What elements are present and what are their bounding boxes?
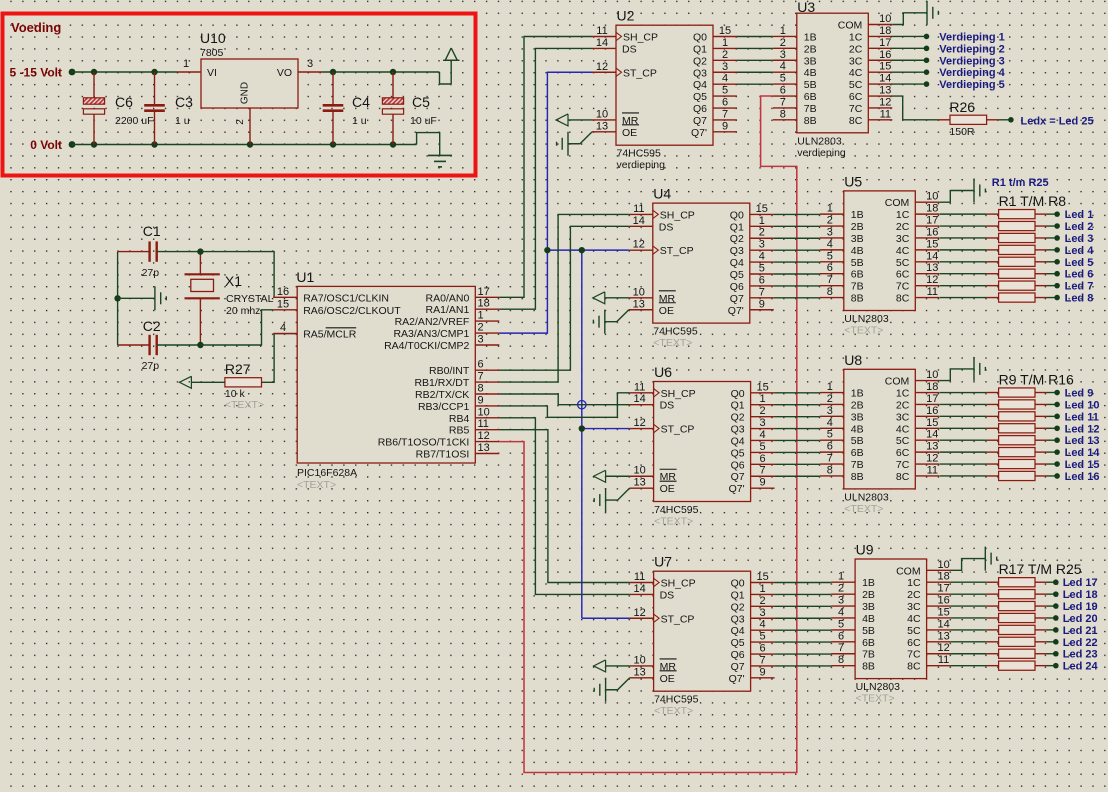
- node Led 19: [1053, 601, 1098, 613]
- node Led 3: [1054, 233, 1093, 245]
- svg-text:8C: 8C: [896, 293, 910, 305]
- svg-text:OE: OE: [660, 483, 675, 495]
- svg-text:10: 10: [879, 13, 891, 25]
- svg-text:C3: C3: [175, 94, 193, 110]
- svg-text:9: 9: [760, 666, 766, 678]
- svg-text:RA2/AN2/VREF: RA2/AN2/VREF: [395, 316, 470, 328]
- label R1 t/m R25: [992, 177, 1049, 189]
- U8 right pin stubs with numbers: [915, 369, 939, 476]
- svg-text:10: 10: [596, 108, 608, 120]
- svg-text:2: 2: [722, 49, 728, 61]
- svg-text:SH_CP: SH_CP: [661, 578, 696, 590]
- svg-text:Led 18: Led 18: [1063, 589, 1098, 601]
- capacitor C1 27p: [118, 223, 201, 279]
- node Verdieping 4: [924, 67, 1006, 79]
- svg-text:Q3: Q3: [731, 424, 745, 436]
- svg-text:4: 4: [759, 251, 765, 263]
- svg-text:12: 12: [633, 607, 645, 619]
- svg-text:4: 4: [838, 606, 844, 618]
- svg-text:7805: 7805: [200, 47, 224, 59]
- svg-text:ST_CP: ST_CP: [660, 245, 694, 257]
- svg-text:7C: 7C: [896, 281, 910, 293]
- svg-text:RB6/T1OSO/T1CKI: RB6/T1OSO/T1CKI: [378, 437, 470, 449]
- wire 0V rail: [72, 144, 417, 146]
- resistor R27 10k: [225, 361, 264, 411]
- svg-text:14: 14: [926, 250, 938, 262]
- svg-text:2: 2: [478, 322, 484, 334]
- wire to rotated ground: [118, 297, 155, 299]
- svg-text:15: 15: [756, 381, 768, 393]
- svg-text:ULN2803: ULN2803: [844, 313, 889, 325]
- U10 pin 2 GND stub: [235, 108, 250, 145]
- svg-text:4C: 4C: [907, 613, 921, 625]
- node Verdieping 1: [924, 31, 1005, 43]
- wire arrow to R27: [191, 381, 225, 383]
- svg-text:12: 12: [937, 642, 949, 654]
- svg-text:13: 13: [926, 441, 938, 453]
- wire C2 row to U1 pin15: [200, 310, 273, 345]
- wire R26 to Ledx node: [999, 119, 1011, 121]
- svg-text:3B: 3B: [851, 411, 864, 423]
- svg-text:7B: 7B: [804, 103, 817, 115]
- microcontroller U1 PIC16F628A: [296, 269, 475, 491]
- svg-text:10: 10: [926, 191, 938, 203]
- svg-text:Led 11: Led 11: [1065, 411, 1099, 423]
- junction left rail to ground: [114, 295, 120, 301]
- svg-text:3: 3: [478, 334, 484, 346]
- svg-text:SH_CP: SH_CP: [660, 209, 695, 221]
- svg-text:R26: R26: [949, 99, 975, 115]
- svg-text:VI: VI: [207, 67, 217, 79]
- node Verdieping 2: [924, 43, 1005, 55]
- arrow terminal at R27: [179, 376, 191, 388]
- svg-text:2200 uF: 2200 uF: [115, 115, 154, 127]
- label Voeding: [11, 20, 61, 35]
- svg-text:3: 3: [827, 226, 833, 238]
- svg-text:4C: 4C: [896, 423, 910, 435]
- wire C1 row to U1 pin16: [200, 252, 274, 298]
- svg-text:Ledx = Led 25: Ledx = Led 25: [1021, 115, 1094, 127]
- crystal X1 20mhz: [185, 252, 274, 345]
- svg-text:Led 9: Led 9: [1065, 388, 1094, 400]
- svg-text:Verdieping 3: Verdieping 3: [939, 55, 1004, 67]
- svg-text:U7: U7: [654, 554, 672, 570]
- power arrow terminal: [443, 48, 460, 84]
- svg-text:2: 2: [838, 583, 844, 595]
- driver U9 ULN2803: [855, 542, 927, 705]
- U10 pin 1 stub: [177, 58, 201, 72]
- svg-text:3B: 3B: [862, 601, 875, 613]
- capacitor C2 27p: [118, 318, 201, 372]
- svg-text:Q5: Q5: [693, 91, 707, 103]
- svg-text:6C: 6C: [896, 447, 910, 459]
- svg-text:8B: 8B: [851, 471, 864, 483]
- svg-text:1: 1: [827, 203, 833, 215]
- wire RA1 to U2 DS: [499, 48, 592, 309]
- svg-text:9: 9: [760, 477, 766, 489]
- svg-text:1: 1: [780, 25, 786, 37]
- svg-text:6C: 6C: [907, 637, 921, 649]
- U8 left pin stubs with numbers: [820, 381, 844, 476]
- svg-text:U8: U8: [844, 352, 862, 368]
- svg-text:6: 6: [760, 453, 766, 465]
- resistor R13: [940, 436, 1058, 445]
- svg-text:Led 2: Led 2: [1065, 221, 1094, 233]
- svg-text:18: 18: [879, 25, 891, 37]
- svg-text:15: 15: [926, 238, 938, 250]
- node Verdieping 3: [924, 55, 1005, 67]
- wire RB6 red net to U3 6B: [499, 96, 797, 772]
- svg-text:Led 14: Led 14: [1065, 447, 1101, 459]
- svg-text:15: 15: [277, 298, 289, 310]
- svg-text:3: 3: [838, 595, 844, 607]
- svg-text:5B: 5B: [804, 79, 817, 91]
- svg-text:OE: OE: [622, 127, 637, 139]
- svg-text:6B: 6B: [851, 269, 864, 281]
- svg-text:14: 14: [633, 215, 645, 227]
- svg-text:11: 11: [880, 108, 891, 120]
- node 0 Volt terminal: [30, 138, 75, 152]
- svg-text:Q0: Q0: [731, 578, 745, 590]
- svg-text:U4: U4: [653, 186, 671, 202]
- node Led 7: [1054, 281, 1093, 293]
- svg-text:2: 2: [827, 215, 833, 227]
- svg-text:7: 7: [780, 96, 786, 108]
- wires U7 Q0-Q7 to U9 1B-8B: [775, 583, 832, 666]
- svg-text:11: 11: [596, 25, 607, 37]
- svg-text:U10: U10: [200, 30, 226, 46]
- svg-text:Led 21: Led 21: [1063, 625, 1098, 637]
- svg-text:7: 7: [827, 274, 833, 286]
- node Led 20: [1053, 613, 1098, 625]
- junction on 0V rail at C3: [151, 141, 157, 147]
- svg-text:16: 16: [926, 226, 938, 238]
- svg-text:17: 17: [926, 393, 938, 405]
- svg-text:6: 6: [838, 630, 844, 642]
- node Ledx = Led25: [1008, 115, 1093, 127]
- resistor group label R1 T/M R8: [999, 193, 1067, 209]
- U2 left pin stubs with numbers: [592, 25, 616, 132]
- svg-text:15: 15: [756, 571, 768, 583]
- svg-text:Q6: Q6: [693, 103, 707, 115]
- svg-text:Led 3: Led 3: [1065, 233, 1094, 245]
- resistor R8: [940, 293, 1058, 302]
- svg-text:10: 10: [937, 559, 949, 571]
- resistor R14: [940, 448, 1058, 457]
- node Led 10: [1054, 399, 1099, 411]
- node Led 17: [1053, 577, 1098, 589]
- node Led 12: [1054, 423, 1099, 435]
- svg-text:7: 7: [478, 371, 484, 383]
- svg-text:7: 7: [760, 654, 766, 666]
- svg-text:3B: 3B: [804, 55, 817, 67]
- svg-text:2: 2: [827, 393, 833, 405]
- svg-text:Led 5: Led 5: [1065, 257, 1094, 269]
- svg-text:DS: DS: [622, 43, 637, 55]
- svg-text:11: 11: [633, 203, 644, 215]
- svg-text:Led 7: Led 7: [1065, 281, 1094, 293]
- svg-text:Led 12: Led 12: [1065, 423, 1100, 435]
- svg-text:U3: U3: [797, 0, 815, 15]
- svg-text:1C: 1C: [896, 209, 910, 221]
- svg-text:16: 16: [937, 595, 949, 607]
- svg-text:4C: 4C: [849, 67, 863, 79]
- svg-text:4B: 4B: [851, 245, 864, 257]
- svg-text:15: 15: [879, 61, 891, 73]
- U7 left pin stubs with numbers: [630, 571, 654, 678]
- svg-text:7: 7: [827, 453, 833, 465]
- 4-way crossing marker on blue net: [578, 401, 586, 409]
- svg-text:1B: 1B: [862, 577, 875, 589]
- svg-text:<TEXT>: <TEXT>: [844, 325, 883, 337]
- svg-text:7: 7: [760, 465, 766, 477]
- svg-text:Q2: Q2: [730, 233, 744, 245]
- U6 right pin stubs with numbers: [751, 381, 775, 488]
- node Led 14: [1054, 447, 1100, 459]
- svg-text:DS: DS: [659, 221, 674, 233]
- svg-text:Led 6: Led 6: [1065, 269, 1094, 281]
- svg-text:Verdieping 5: Verdieping 5: [939, 79, 1004, 91]
- svg-text:9: 9: [478, 394, 484, 406]
- svg-text:RB4: RB4: [449, 413, 470, 425]
- svg-text:5C: 5C: [896, 435, 910, 447]
- svg-text:74HC595: 74HC595: [654, 504, 699, 516]
- svg-text:Q1: Q1: [730, 221, 744, 233]
- svg-text:3B: 3B: [851, 233, 864, 245]
- svg-text:27p: 27p: [142, 267, 160, 279]
- wire RB0 to U4 DS: [499, 226, 629, 370]
- wire RA0 to U2 SH_CP: [499, 37, 592, 298]
- wire RB5 to U7 SH_CP: [499, 430, 629, 583]
- wires U4 Q0-Q7 to U5 1B-8B: [774, 214, 820, 297]
- resistor R1: [940, 210, 1058, 219]
- svg-text:3: 3: [760, 417, 766, 429]
- svg-text:14: 14: [596, 37, 608, 49]
- U9 left pin stubs with numbers: [831, 571, 855, 666]
- svg-text:7: 7: [722, 108, 728, 120]
- svg-text:6: 6: [759, 274, 765, 286]
- svg-text:15: 15: [756, 203, 768, 215]
- svg-text:Led 19: Led 19: [1063, 601, 1098, 613]
- node Led 2: [1054, 221, 1093, 233]
- capacitor C4 1u: [323, 72, 370, 145]
- U5 left pin stubs with numbers: [820, 203, 844, 298]
- svg-text:1: 1: [760, 393, 766, 405]
- svg-text:RA4/T0CKI/CMP2: RA4/T0CKI/CMP2: [384, 340, 469, 352]
- svg-text:13: 13: [596, 120, 608, 132]
- junction X1 top: [197, 248, 203, 254]
- node Led 21: [1053, 625, 1098, 637]
- node Led 18: [1053, 589, 1098, 601]
- U5 COM power symbol (rotated ground): [939, 179, 985, 203]
- svg-text:8B: 8B: [851, 293, 864, 305]
- svg-text:Q3: Q3: [731, 613, 745, 625]
- svg-text:Led 15: Led 15: [1065, 459, 1100, 471]
- svg-text:SH_CP: SH_CP: [623, 32, 658, 44]
- svg-text:PIC16F628A: PIC16F628A: [297, 467, 357, 479]
- svg-text:GND: GND: [240, 82, 251, 104]
- svg-text:RA7/OSC1/CLKIN: RA7/OSC1/CLKIN: [303, 292, 389, 304]
- resistor R18: [951, 590, 1056, 599]
- svg-text:6: 6: [722, 97, 728, 109]
- svg-text:ULN2803: ULN2803: [797, 135, 842, 147]
- svg-text:12: 12: [596, 61, 608, 73]
- svg-text:74HC595: 74HC595: [653, 326, 698, 338]
- svg-text:15: 15: [926, 417, 938, 429]
- svg-text:3: 3: [780, 49, 786, 61]
- svg-text:R27: R27: [225, 361, 251, 377]
- svg-text:6: 6: [780, 85, 786, 97]
- node Led 6: [1054, 269, 1093, 281]
- svg-text:Led 20: Led 20: [1063, 613, 1098, 625]
- svg-text:3: 3: [827, 405, 833, 417]
- svg-text:<TEXT>: <TEXT>: [654, 705, 693, 717]
- svg-text:Led 23: Led 23: [1063, 649, 1098, 661]
- svg-text:3: 3: [759, 239, 765, 251]
- svg-text:8B: 8B: [804, 115, 817, 127]
- svg-text:10: 10: [633, 286, 645, 298]
- svg-text:C6: C6: [115, 94, 133, 110]
- svg-text:1: 1: [722, 37, 728, 49]
- svg-text:U1: U1: [296, 269, 314, 285]
- junction on 5V rail at C5: [390, 69, 396, 75]
- junction on 5V rail at C4: [330, 69, 336, 75]
- svg-text:5: 5: [760, 441, 766, 453]
- rotated ground symbol near C1/C2: [155, 286, 166, 310]
- svg-text:8: 8: [827, 464, 833, 476]
- resistor R5: [940, 257, 1058, 266]
- node Led 1: [1054, 209, 1093, 221]
- svg-text:5: 5: [838, 618, 844, 630]
- svg-text:5B: 5B: [851, 435, 864, 447]
- shift register U6 74HC595: [654, 364, 751, 528]
- node Verdieping 5: [924, 79, 1005, 91]
- svg-text:RB5: RB5: [449, 425, 470, 437]
- resistor group label R9 T/M R16: [999, 371, 1074, 387]
- svg-text:12: 12: [633, 239, 645, 251]
- svg-text:7B: 7B: [851, 281, 864, 293]
- svg-text:Led 13: Led 13: [1065, 435, 1100, 447]
- svg-text:13: 13: [478, 442, 490, 454]
- svg-text:RA6/OSC2/CLKOUT: RA6/OSC2/CLKOUT: [303, 305, 401, 317]
- svg-text:17: 17: [478, 286, 490, 298]
- U6 MR arrow terminal: [594, 470, 630, 482]
- svg-text:7: 7: [759, 286, 765, 298]
- svg-text:Led 4: Led 4: [1065, 245, 1095, 257]
- svg-text:12: 12: [478, 430, 490, 442]
- svg-text:OE: OE: [660, 673, 675, 685]
- svg-text:13: 13: [937, 630, 949, 642]
- U6 left pin stubs with numbers: [630, 381, 654, 488]
- svg-text:RB1/RX/DT: RB1/RX/DT: [414, 377, 469, 389]
- resistor R21: [951, 625, 1056, 634]
- U3 right pin stubs with numbers: [868, 13, 892, 120]
- svg-text:8C: 8C: [896, 471, 910, 483]
- svg-text:2: 2: [760, 405, 766, 417]
- shift register U2 74HC595: [616, 8, 713, 172]
- svg-text:ST_CP: ST_CP: [661, 613, 695, 625]
- svg-text:3C: 3C: [849, 55, 863, 67]
- svg-text:X1: X1: [225, 273, 242, 289]
- svg-text:4: 4: [280, 322, 286, 334]
- svg-text:5: 5: [722, 85, 728, 97]
- svg-text:11: 11: [927, 464, 938, 476]
- svg-text:5C: 5C: [896, 257, 910, 269]
- svg-text:4: 4: [760, 619, 766, 631]
- svg-text:27p: 27p: [142, 360, 160, 372]
- svg-text:Q4: Q4: [731, 435, 745, 447]
- svg-text:4B: 4B: [804, 67, 817, 79]
- svg-text:6: 6: [478, 359, 484, 371]
- svg-text:2: 2: [760, 595, 766, 607]
- svg-text:Q7: Q7: [731, 661, 745, 673]
- svg-text:R1 t/m R25: R1 t/m R25: [992, 177, 1049, 189]
- svg-text:5B: 5B: [851, 257, 864, 269]
- svg-text:2B: 2B: [851, 399, 864, 411]
- svg-text:Q5: Q5: [731, 447, 745, 459]
- svg-text:15: 15: [937, 606, 949, 618]
- U4 right pin stubs with numbers: [750, 203, 774, 310]
- svg-text:4B: 4B: [862, 613, 875, 625]
- svg-text:4: 4: [760, 429, 766, 441]
- svg-text:VO: VO: [277, 67, 292, 79]
- svg-text:8: 8: [780, 108, 786, 120]
- svg-text:COM: COM: [838, 20, 863, 32]
- U4 OE ground symbol: [593, 310, 628, 334]
- svg-text:16: 16: [879, 49, 891, 61]
- svg-text:1: 1: [827, 381, 833, 393]
- svg-text:5C: 5C: [849, 79, 863, 91]
- svg-text:1C: 1C: [907, 577, 921, 589]
- U9 COM power symbol (rotated ground): [951, 547, 997, 571]
- svg-text:C2: C2: [143, 318, 161, 334]
- svg-text:Led 1: Led 1: [1065, 209, 1094, 221]
- svg-text:9: 9: [722, 120, 728, 132]
- U4 MR arrow terminal: [593, 292, 629, 304]
- svg-text:Led 10: Led 10: [1065, 399, 1100, 411]
- junction on 5-15V rail at C3: [151, 69, 157, 75]
- svg-text:6: 6: [760, 643, 766, 655]
- svg-text:6C: 6C: [896, 269, 910, 281]
- svg-text:4B: 4B: [851, 423, 864, 435]
- svg-text:13: 13: [879, 85, 891, 97]
- svg-text:Led 22: Led 22: [1063, 637, 1098, 649]
- svg-text:Q1: Q1: [731, 400, 745, 412]
- svg-text:10: 10: [926, 369, 938, 381]
- junction on 5-15V rail at C6: [91, 69, 97, 75]
- svg-text:<TEXT>: <TEXT>: [653, 337, 692, 349]
- resistor R10: [940, 400, 1058, 409]
- U7 right pin stubs with numbers: [751, 571, 775, 678]
- svg-text:Q7': Q7': [729, 483, 745, 495]
- svg-text:17: 17: [926, 215, 938, 227]
- node Led 4: [1054, 245, 1094, 257]
- U3 left pin stubs with numbers: [773, 25, 797, 120]
- resistor R4: [940, 245, 1058, 254]
- node 5-15 Volt terminal: [10, 66, 76, 80]
- svg-text:Q2: Q2: [693, 55, 707, 67]
- svg-text:Q3: Q3: [693, 67, 707, 79]
- svg-text:2: 2: [235, 119, 246, 125]
- svg-text:13: 13: [926, 262, 938, 274]
- svg-text:Q7': Q7': [691, 127, 707, 139]
- svg-text:8C: 8C: [907, 661, 921, 673]
- svg-text:1B: 1B: [851, 209, 864, 221]
- svg-text:12: 12: [926, 453, 938, 465]
- svg-text:U5: U5: [844, 173, 862, 189]
- junction blue net vertical branch: [579, 247, 585, 253]
- svg-text:Q6: Q6: [731, 459, 745, 471]
